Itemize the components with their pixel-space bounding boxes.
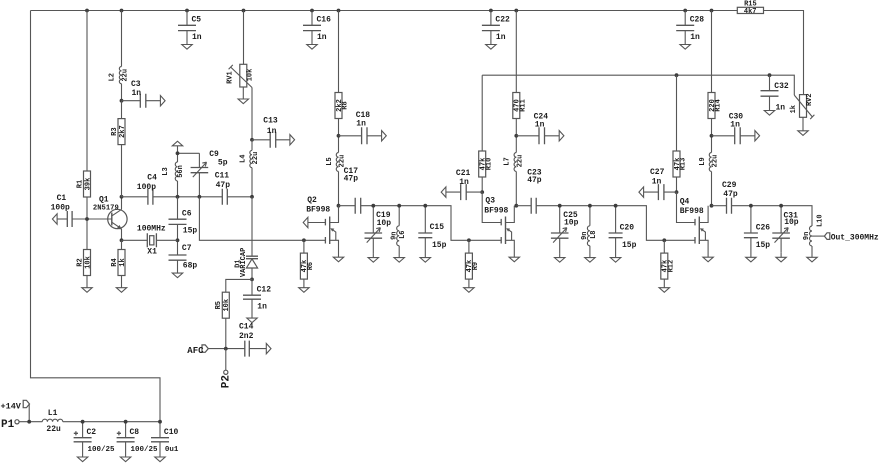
svg-text:P1: P1 xyxy=(1,419,15,431)
junction (rail) xyxy=(683,9,687,13)
junction (R12 node) xyxy=(662,238,666,242)
junction (rail) xyxy=(337,9,341,13)
ground (RV1) xyxy=(238,99,248,104)
wire (R1 to base) xyxy=(86,197,88,219)
wire (rail to R11) xyxy=(515,11,517,93)
transistor Q1 2N5179 xyxy=(93,196,127,230)
ground (C5) xyxy=(182,45,192,50)
wire (emitter to R4) xyxy=(121,240,123,249)
wire (gate-2 bias line from RV2) xyxy=(482,75,794,95)
wire xyxy=(780,253,782,257)
svg-text:C10: C10 xyxy=(164,428,179,437)
svg-text:R10: R10 xyxy=(485,158,493,171)
resistor R3 2k7 xyxy=(111,119,127,145)
svg-text:5p: 5p xyxy=(218,159,228,168)
capacitor C27 1n xyxy=(644,168,677,200)
resistor R15 4k7 xyxy=(737,1,763,16)
wire (+14V to P1 line) xyxy=(28,404,30,422)
svg-text:100/25: 100/25 xyxy=(131,446,159,454)
svg-text:15p: 15p xyxy=(756,241,771,250)
crystal X1 100MHz xyxy=(122,225,178,257)
capacitor C26 15p xyxy=(744,206,770,258)
svg-text:1n: 1n xyxy=(690,33,700,42)
capacitor C14 2n2 xyxy=(239,323,266,357)
svg-text:L7: L7 xyxy=(504,157,512,165)
svg-text:22u: 22u xyxy=(46,425,61,434)
wire (R5 to AFC line) xyxy=(225,318,227,348)
inductor L3 56n xyxy=(162,153,185,197)
junction xyxy=(397,204,401,208)
capacitor C20 15p xyxy=(609,206,637,258)
wire (L3/C9 top link) xyxy=(178,152,200,154)
svg-text:R14: R14 xyxy=(715,99,723,112)
svg-text:1n: 1n xyxy=(132,89,142,98)
capacitor C23 47p xyxy=(516,169,542,214)
ground (L8) xyxy=(585,258,595,263)
capacitor C15 15p xyxy=(418,206,446,258)
junction (C18 node) xyxy=(337,134,341,138)
inductor L7 22u xyxy=(504,153,525,206)
svg-text:2n2: 2n2 xyxy=(239,332,254,341)
svg-text:1n: 1n xyxy=(257,302,267,311)
svg-text:+14V: +14V xyxy=(1,402,22,412)
svg-text:L1: L1 xyxy=(48,409,58,418)
junction (R6 node) xyxy=(302,238,306,242)
transistor Q4 BF998 xyxy=(695,206,708,258)
svg-text:1n: 1n xyxy=(317,33,327,42)
junction (rail) xyxy=(120,9,124,13)
svg-text:R4: R4 xyxy=(111,258,119,266)
svg-text:9n: 9n xyxy=(803,232,811,240)
junction (emitter node) xyxy=(120,238,124,242)
wire (to Q4 gate 2) xyxy=(677,192,696,222)
svg-text:1n: 1n xyxy=(730,121,740,130)
svg-text:C26: C26 xyxy=(756,223,771,232)
svg-text:1k: 1k xyxy=(790,105,798,113)
connector +14V xyxy=(1,400,30,411)
svg-text:10p: 10p xyxy=(564,219,579,228)
capacitor C2 100/25 xyxy=(74,422,115,457)
wire (to R5) xyxy=(226,279,252,292)
wire (arrow to C1) xyxy=(57,218,67,220)
svg-text:22u: 22u xyxy=(712,155,720,168)
svg-text:22u: 22u xyxy=(339,155,347,168)
svg-text:Q4: Q4 xyxy=(680,198,690,207)
svg-text:C13: C13 xyxy=(263,117,278,126)
svg-text:1k: 1k xyxy=(119,258,127,266)
svg-text:0u1: 0u1 xyxy=(165,446,179,454)
svg-text:15p: 15p xyxy=(432,241,447,250)
svg-text:C12: C12 xyxy=(257,286,272,295)
capacitor C1 100p xyxy=(51,194,73,227)
svg-text:10p: 10p xyxy=(377,219,392,228)
svg-text:10k: 10k xyxy=(246,69,254,82)
ground (C28) xyxy=(680,45,690,50)
svg-text:100MHz: 100MHz xyxy=(137,225,166,234)
wire (R11 to L7) xyxy=(515,119,517,153)
svg-text:L3: L3 xyxy=(162,167,170,175)
inductor L4 22u xyxy=(239,140,260,197)
inductor L1 22u xyxy=(42,409,62,434)
resistor R13 47k xyxy=(673,151,688,177)
ground (C1 input arrow) xyxy=(52,214,57,224)
junction (Q1 base node) xyxy=(85,217,89,221)
svg-text:X1: X1 xyxy=(147,247,157,256)
labels Q3 xyxy=(484,197,508,216)
connector Out_300MHz xyxy=(824,233,879,243)
junction xyxy=(614,204,618,208)
svg-text:L5: L5 xyxy=(326,157,334,165)
wire (to supply arrow) xyxy=(177,146,179,154)
svg-text:47p: 47p xyxy=(527,176,542,185)
svg-text:9n: 9n xyxy=(390,231,398,239)
resistor R1 39k xyxy=(76,171,92,197)
wire (tank1 node) xyxy=(361,206,469,241)
svg-text:100p: 100p xyxy=(137,183,156,192)
svg-text:1n: 1n xyxy=(652,178,662,187)
wire (C11 to varicap node) xyxy=(227,196,252,198)
svg-text:47p: 47p xyxy=(216,181,231,190)
trimmer capacitor C9 5p xyxy=(191,150,228,197)
junction xyxy=(81,420,85,424)
junction (Q4 drain node) xyxy=(710,204,714,208)
wire (R10 bottom) xyxy=(481,177,483,192)
svg-text:1n: 1n xyxy=(496,33,506,42)
ground (C24) xyxy=(559,131,564,141)
ground (R6) xyxy=(299,288,309,293)
svg-text:R2: R2 xyxy=(76,258,84,266)
junction (tank node A) xyxy=(176,195,180,199)
svg-text:4k7: 4k7 xyxy=(744,8,757,16)
svg-text:2k7: 2k7 xyxy=(119,125,127,138)
svg-text:P2: P2 xyxy=(220,375,232,388)
resistor R2 10k xyxy=(76,250,92,276)
inductor L9 22u xyxy=(699,153,720,206)
wire (to Q3 gate 2) xyxy=(482,192,501,222)
svg-text:Out_300MHz: Out_300MHz xyxy=(831,233,879,242)
capacitor C7 68p xyxy=(169,240,198,273)
svg-text:C21: C21 xyxy=(456,169,471,178)
wire (RV2 to ground) xyxy=(802,117,804,131)
junction (C27 node) xyxy=(675,190,679,194)
svg-text:15p: 15p xyxy=(622,241,637,250)
ground (C8) xyxy=(120,457,130,462)
capacitor C13 1n xyxy=(252,117,290,148)
labels Q4 xyxy=(680,198,704,217)
svg-text:C32: C32 xyxy=(774,82,789,91)
svg-text:1n: 1n xyxy=(535,121,545,130)
wire (tank2 node) xyxy=(536,206,664,241)
junction xyxy=(558,204,562,208)
ground (C7) xyxy=(172,273,182,278)
resistor R12 47k xyxy=(661,253,676,279)
junction (rail) xyxy=(85,9,89,13)
wire (bias to R10) xyxy=(481,75,483,151)
ground (C27) xyxy=(639,187,644,197)
wire (tank to Q2 gate 1) xyxy=(199,197,325,241)
svg-text:47p: 47p xyxy=(344,175,359,184)
wire (rail to R8) xyxy=(338,11,340,93)
junction (C30 node) xyxy=(710,134,714,138)
svg-text:C22: C22 xyxy=(495,16,510,25)
svg-text:C11: C11 xyxy=(215,172,230,181)
inductor L10 9n xyxy=(803,214,824,257)
junction xyxy=(371,204,375,208)
ground (C10) xyxy=(155,457,165,462)
capacitor C5 1n xyxy=(178,11,202,45)
wire (RV1 wiper down) xyxy=(251,88,253,140)
ground (C19) xyxy=(368,258,378,263)
resistor R4 1k xyxy=(111,250,127,276)
svg-text:10p: 10p xyxy=(784,218,799,227)
capacitor C12 1n xyxy=(243,279,271,318)
wire (+supply top rail) xyxy=(31,11,804,95)
wire (C3 node to R3) xyxy=(121,101,123,119)
capacitor C4 100p xyxy=(137,174,157,205)
junction xyxy=(124,420,128,424)
svg-text:100/25: 100/25 xyxy=(88,446,116,454)
wire (R2 to ground) xyxy=(86,276,88,288)
svg-text:1n: 1n xyxy=(192,33,202,42)
svg-text:L9: L9 xyxy=(699,157,707,165)
wire (R1 top) xyxy=(86,11,88,172)
inductor L6 9n xyxy=(390,206,407,258)
svg-text:R5: R5 xyxy=(215,301,223,309)
resistor R11 470 xyxy=(513,93,528,119)
svg-text:C20: C20 xyxy=(620,223,635,232)
ground (C21) xyxy=(441,187,446,197)
svg-text:22u: 22u xyxy=(516,155,524,168)
svg-text:C1: C1 xyxy=(57,194,67,203)
trimmer capacitor C31 10p xyxy=(772,206,799,253)
svg-text:R8: R8 xyxy=(342,101,350,109)
svg-text:22u: 22u xyxy=(252,152,260,165)
capacitor C24 1n xyxy=(516,112,559,144)
junction (X1/C6/C7 node) xyxy=(176,238,180,242)
inductor L2 22u xyxy=(108,11,129,101)
wire (R12 leads) xyxy=(663,240,665,287)
wire (AFC line) xyxy=(208,348,245,350)
svg-text:L2: L2 xyxy=(108,73,116,81)
svg-text:C5: C5 xyxy=(192,16,202,25)
svg-text:Q1: Q1 xyxy=(99,196,109,205)
wire (bias to R13) xyxy=(676,75,678,151)
ground (C3) xyxy=(160,96,165,106)
junction (C13 node) xyxy=(250,138,254,142)
wire (Q2 gate 2) xyxy=(308,222,326,224)
diode D1 VARICAP xyxy=(234,197,258,280)
svg-text:BF998: BF998 xyxy=(484,207,508,216)
svg-text:C7: C7 xyxy=(182,244,192,253)
svg-text:10k: 10k xyxy=(84,256,92,269)
svg-text:L8: L8 xyxy=(590,230,598,238)
junction (L3 top) xyxy=(176,151,180,155)
ground (C18) xyxy=(382,131,387,141)
ground (L10) xyxy=(807,257,817,262)
wire (rail to R14) xyxy=(711,11,713,93)
wire (rail to RV1) xyxy=(243,11,245,65)
svg-text:C28: C28 xyxy=(690,16,705,25)
wire (base to R2) xyxy=(86,219,88,250)
svg-text:C2: C2 xyxy=(87,428,97,437)
ground (Q2 gate 2 arrow) xyxy=(303,217,308,227)
svg-text:Q2: Q2 xyxy=(307,196,317,205)
ground (C15) xyxy=(420,258,430,263)
wire (to Q3 gate 1) xyxy=(469,239,501,241)
svg-text:RV2: RV2 xyxy=(806,93,814,106)
wire (R14 to L9) xyxy=(711,119,713,153)
junction xyxy=(749,204,753,208)
junction (Q2 drain node) xyxy=(337,204,341,208)
ground (C20) xyxy=(610,258,620,263)
connector AFC xyxy=(187,345,208,356)
svg-text:L10: L10 xyxy=(816,214,824,227)
wire (R8 to L5) xyxy=(338,119,340,153)
connector P1 xyxy=(1,419,19,431)
junction (tank node B) xyxy=(198,195,202,199)
capacitor C18 1n xyxy=(339,111,382,144)
ground (C30) xyxy=(755,131,760,141)
junction (R9 node) xyxy=(467,238,471,242)
svg-text:47p: 47p xyxy=(723,190,738,199)
wire (output tap) xyxy=(812,235,824,237)
trimmer capacitor C19 10p xyxy=(365,206,392,253)
svg-text:R3: R3 xyxy=(111,127,119,135)
ground (C32) xyxy=(764,111,774,116)
svg-text:1n: 1n xyxy=(267,127,277,136)
ground (R2) xyxy=(82,288,92,293)
junction (bias/C32) xyxy=(768,73,772,77)
svg-text:1n: 1n xyxy=(459,178,469,187)
svg-text:39k: 39k xyxy=(84,178,92,191)
ground (R4) xyxy=(116,288,126,293)
capacitor C10 0u1 xyxy=(151,422,179,457)
junction (D1 bottom node) xyxy=(250,278,254,282)
svg-text:C16: C16 xyxy=(317,16,332,25)
transistor Q2 BF998 xyxy=(325,206,338,258)
transistor Q3 BF998 xyxy=(501,206,514,258)
potentiometer RV2 1k xyxy=(790,93,814,119)
wire (R9 leads) xyxy=(468,240,470,287)
ground (L6) xyxy=(394,258,404,263)
svg-text:C29: C29 xyxy=(722,181,737,190)
svg-text:1n: 1n xyxy=(776,104,786,113)
wire (R4 to ground) xyxy=(121,276,123,288)
junction (varicap node) xyxy=(250,195,254,199)
svg-text:C3: C3 xyxy=(131,80,141,89)
wire (R6 leads) xyxy=(303,240,305,287)
resistor R8 2k2 xyxy=(335,93,350,119)
svg-text:R1: R1 xyxy=(76,180,84,188)
junction (rail) xyxy=(489,9,493,13)
svg-text:R9: R9 xyxy=(472,262,480,270)
ground (C25) xyxy=(555,258,565,263)
ground (C14) xyxy=(266,343,271,353)
svg-text:2N5179: 2N5179 xyxy=(93,204,119,212)
ground (Q3 BF998 source) xyxy=(509,257,519,262)
ground (Q2 BF998 source) xyxy=(333,257,343,262)
wire (output tank node) xyxy=(732,206,813,226)
svg-text:22u: 22u xyxy=(122,69,130,82)
junction xyxy=(158,420,162,424)
ground (C12) xyxy=(247,318,257,323)
ground (C13) xyxy=(290,135,295,145)
ground (R12) xyxy=(659,288,669,293)
svg-text:Q3: Q3 xyxy=(485,197,495,206)
trimmer capacitor C25 10p xyxy=(551,206,579,253)
capacitor C17 47p xyxy=(339,167,361,214)
capacitor C30 1n xyxy=(712,112,755,144)
junction xyxy=(779,204,783,208)
ground (C31) xyxy=(776,257,786,262)
svg-text:BF998: BF998 xyxy=(306,206,330,215)
junction xyxy=(588,204,592,208)
svg-text:L4: L4 xyxy=(239,155,247,163)
junction (rail) xyxy=(185,9,189,13)
junction (rail) xyxy=(310,9,314,13)
resistor R10 47k xyxy=(479,151,494,177)
svg-text:56n: 56n xyxy=(177,165,185,178)
capacitor C8 100/25 xyxy=(117,422,158,457)
svg-text:68p: 68p xyxy=(183,262,198,271)
svg-text:100p: 100p xyxy=(51,203,70,212)
svg-text:R11: R11 xyxy=(520,99,528,112)
wire (Q1 emitter) xyxy=(121,229,123,241)
svg-text:C27: C27 xyxy=(650,168,665,177)
junction (AFC node) xyxy=(224,347,228,351)
junction xyxy=(27,420,31,424)
wire (RV1 to ground) xyxy=(242,87,244,99)
svg-text:C8: C8 xyxy=(130,428,140,437)
ground (C16) xyxy=(307,45,317,50)
trimmer potentiometer RV1 10k xyxy=(227,64,255,87)
wire (Q1 collector) xyxy=(121,197,123,210)
junction (rail) xyxy=(710,9,714,13)
wire (P1 feed line) xyxy=(19,421,160,423)
capacitor C3 1n xyxy=(122,80,161,108)
svg-text:C4: C4 xyxy=(147,174,157,183)
svg-text:C15: C15 xyxy=(430,223,445,232)
capacitor C22 1n xyxy=(482,11,510,45)
resistor R6 47k xyxy=(300,253,315,279)
wire (to Q4 gate 1) xyxy=(664,239,695,241)
junction (rail) xyxy=(514,9,518,13)
wire xyxy=(372,253,374,258)
inductor L8 9n xyxy=(581,206,598,258)
wire (collector to C4) xyxy=(122,196,148,198)
wire (R3 to collector) xyxy=(121,145,123,197)
wire xyxy=(559,253,561,258)
svg-text:9n: 9n xyxy=(581,231,589,239)
svg-text:RV1: RV1 xyxy=(227,71,235,84)
junction (collector node) xyxy=(120,195,124,199)
wire (R13 bottom) xyxy=(676,177,678,192)
svg-text:AFC: AFC xyxy=(187,346,204,356)
wire (C1 to Q1 base) xyxy=(72,218,112,220)
svg-text:C6: C6 xyxy=(182,210,192,219)
wire (supply feed riser) xyxy=(31,11,161,422)
capacitor C28 1n xyxy=(676,11,704,45)
svg-text:1n: 1n xyxy=(356,120,366,129)
resistor R14 220 xyxy=(708,93,723,119)
junction xyxy=(423,204,427,208)
labels Q2 xyxy=(306,196,330,215)
svg-text:R6: R6 xyxy=(307,262,315,270)
capacitor C32 1n xyxy=(761,75,789,113)
capacitor C11 47p xyxy=(215,172,231,205)
ground (C2) xyxy=(77,457,87,462)
ground (RV2) xyxy=(798,131,808,136)
